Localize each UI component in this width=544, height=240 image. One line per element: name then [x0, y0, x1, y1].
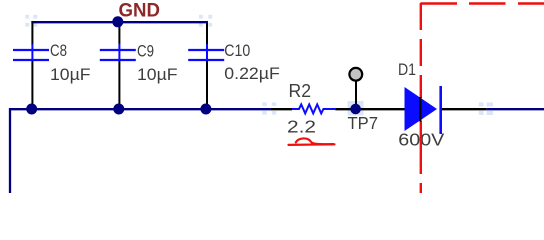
capacitor C9 pin stub: [118, 44, 120, 61]
grid mark cross left of top rail corner: [25, 15, 37, 27]
svg-text:2.2: 2.2: [287, 117, 316, 137]
wire top ground rail: [31, 21, 208, 23]
capacitor C10 pin stub: [206, 44, 208, 60]
node TP7 junction dot: [350, 104, 361, 115]
node C10 junction dot: [200, 104, 211, 115]
node C8 junction dot: [26, 104, 37, 115]
wire bottom rail with left drop: [10, 109, 271, 193]
svg-text:TP7: TP7: [348, 113, 379, 133]
wire C8 bottom lead: [31, 61, 33, 108]
svg-text:R2: R2: [289, 81, 312, 101]
node GND junction dot: [112, 16, 123, 27]
capacitor C9 bottom plate: [100, 59, 136, 61]
diode D1 triangle: [405, 87, 438, 131]
wire black segment from R2 to diode: [335, 108, 405, 110]
svg-text:0.22µF: 0.22µF: [224, 64, 279, 83]
svg-text:C10: C10: [224, 41, 250, 60]
capacitor C10 bottom plate: [188, 59, 224, 61]
resistor R2 zigzag: [292, 104, 336, 113]
capacitor C9 top plate: [100, 49, 136, 51]
capacitor C8 bottom plate: [13, 59, 49, 61]
diode D1 cathode bar: [439, 86, 442, 134]
capacitor C8 top plate: [13, 49, 49, 51]
wire C10 bottom lead: [206, 61, 208, 108]
wire C10 top lead: [206, 23, 208, 44]
node C9 junction dot: [113, 104, 124, 115]
svg-text:10µF: 10µF: [50, 65, 91, 84]
wire C8 top lead: [31, 21, 33, 45]
red markup swoosh under 2.2: [289, 143, 335, 146]
svg-text:GND: GND: [119, 1, 161, 22]
red dashed selection rect left edge: [420, 3, 422, 193]
wire black segment into R2: [271, 108, 292, 110]
svg-text:10µF: 10µF: [137, 65, 178, 84]
capacitor C10 top plate: [188, 49, 224, 51]
wire black segment right of diode: [442, 108, 486, 110]
black line over diode where dashed line crosses: [419, 97, 421, 122]
capacitor C8 pin stub: [31, 44, 33, 60]
wire C9 bottom lead: [118, 61, 120, 108]
svg-text:D1: D1: [398, 60, 416, 79]
testpoint TP7 stub: [355, 79, 357, 107]
svg-text:C8: C8: [50, 41, 67, 60]
grid mark crosses on bottom rail left of R2: [262, 102, 276, 114]
grid mark crosses on wire right of D1: [479, 102, 493, 115]
wire C9 top lead: [118, 23, 120, 44]
wire navy segment to right edge: [486, 108, 544, 110]
grid mark cross right of top rail end: [199, 15, 212, 27]
testpoint TP7 pad circle: [349, 68, 362, 81]
grid mark halo behind TP7 junction: [348, 101, 364, 116]
red dashed selection rect top edge: [421, 2, 544, 4]
svg-text:C9: C9: [137, 42, 154, 61]
